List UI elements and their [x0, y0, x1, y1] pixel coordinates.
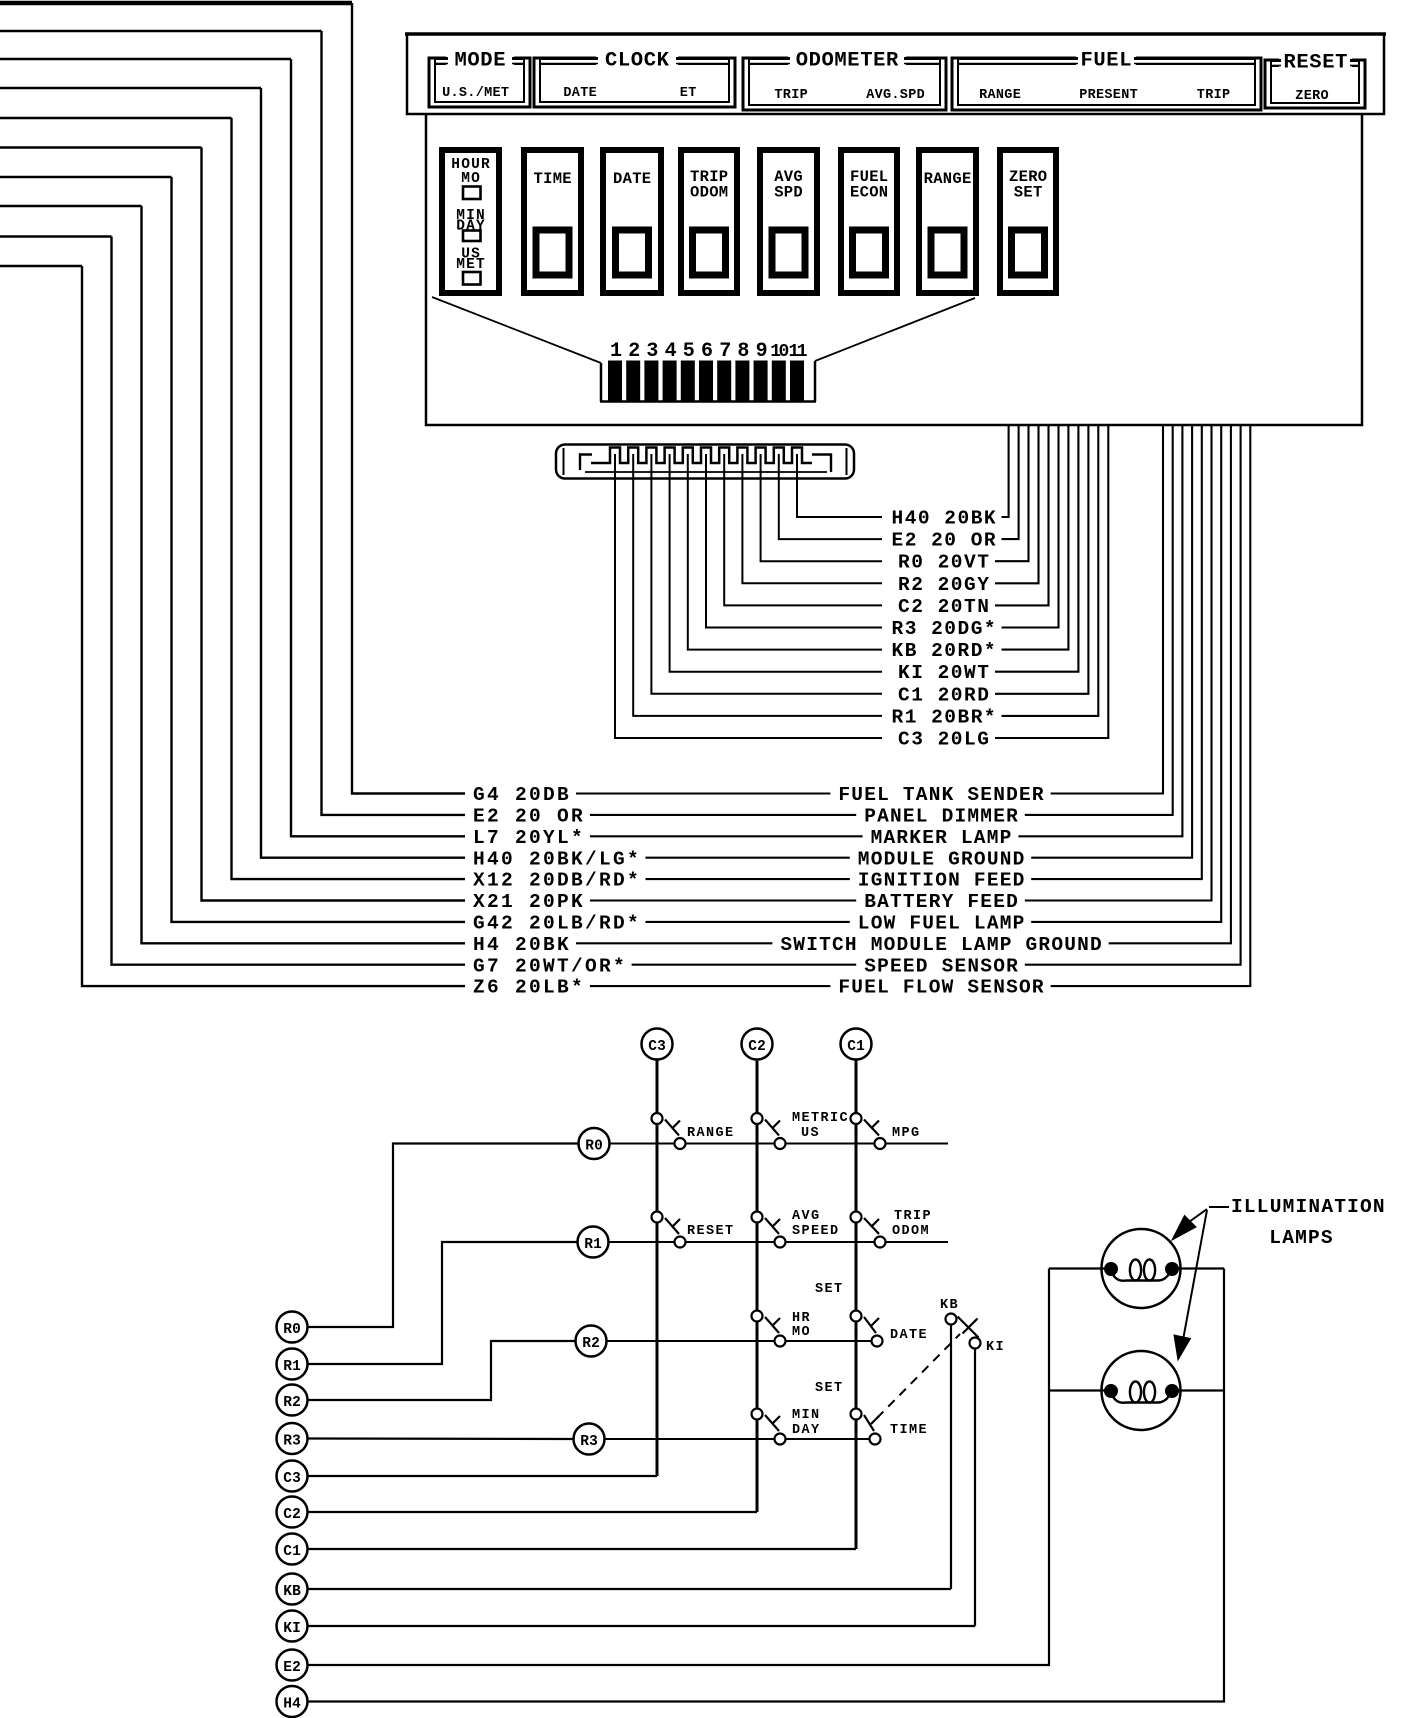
svg-text:H4 20BK: H4 20BK: [473, 934, 571, 956]
svg-text:MIN: MIN: [792, 1408, 821, 1423]
svg-text:MO: MO: [792, 1325, 811, 1340]
panel group box CLOCK: [534, 48, 735, 107]
svg-text:SET: SET: [1014, 184, 1043, 202]
svg-text:ILLUMINATION: ILLUMINATION: [1231, 1196, 1386, 1218]
svg-text:R1: R1: [584, 1237, 602, 1253]
svg-text:E2: E2: [283, 1660, 301, 1676]
terminal C3: [277, 1461, 308, 1492]
svg-text:KI 20WT: KI 20WT: [898, 662, 990, 684]
svg-text:TRIP: TRIP: [1197, 88, 1231, 103]
svg-text:R2 20GY: R2 20GY: [898, 574, 990, 596]
switch RANGE (R0-C3): [652, 1113, 735, 1149]
svg-text:Z6 20LB*: Z6 20LB*: [473, 977, 585, 999]
row H4 20BK — SWITCH MODULE LAMP GROUND: [473, 426, 1231, 956]
arrow to lamp 2: [1174, 1210, 1207, 1360]
svg-text:KI: KI: [986, 1340, 1005, 1355]
rocker switch AVG SPD: [760, 150, 817, 293]
svg-text:G4 20DB: G4 20DB: [473, 784, 571, 806]
gang dashed link TIME-KB: [877, 1334, 960, 1418]
svg-text:ODOMETER: ODOMETER: [796, 50, 899, 73]
svg-text:DAY: DAY: [792, 1423, 821, 1438]
terminal R2: [277, 1385, 308, 1416]
svg-text:RANGE: RANGE: [924, 170, 972, 188]
svg-text:AVG.SPD: AVG.SPD: [866, 88, 925, 103]
svg-text:RESET: RESET: [687, 1224, 735, 1239]
svg-text:MODULE GROUND: MODULE GROUND: [858, 848, 1026, 870]
svg-text:ECON: ECON: [850, 184, 888, 202]
svg-text:KI: KI: [283, 1621, 301, 1637]
svg-text:METRIC: METRIC: [792, 1111, 849, 1126]
svg-text:FUEL FLOW SENSOR: FUEL FLOW SENSOR: [838, 977, 1044, 999]
rocker switch DATE: [603, 150, 661, 293]
label C3 20LG with wire to module: [898, 426, 1108, 751]
module pin 1: [608, 340, 622, 402]
row X12 20DB/RD* — IGNITION FEED: [473, 426, 1202, 892]
node R3 (row): [574, 1424, 605, 1455]
wire pin 3 to C1 20RD: [651, 454, 882, 694]
panel group box MODE: [429, 48, 530, 107]
module pin 4: [663, 340, 677, 402]
switch AVG SPEED (R1-C2): [752, 1209, 840, 1248]
svg-text:3: 3: [646, 340, 658, 363]
svg-text:U.S./MET: U.S./MET: [442, 86, 509, 101]
svg-text:R0: R0: [283, 1322, 301, 1338]
svg-text:ODOM: ODOM: [690, 184, 728, 202]
wire pin 2 to R1 20BR*: [633, 454, 882, 716]
svg-text:ODOM: ODOM: [892, 1224, 930, 1239]
svg-text:9: 9: [756, 340, 768, 363]
svg-text:IGNITION FEED: IGNITION FEED: [858, 870, 1026, 892]
svg-text:H40 20BK/LG*: H40 20BK/LG*: [473, 848, 641, 870]
wire H4 20BK harness (left nest): [0, 206, 465, 943]
svg-text:TRIP: TRIP: [894, 1209, 932, 1224]
wire terminal R1 to row R1: [308, 1242, 578, 1364]
svg-text:R3 20DG*: R3 20DG*: [892, 618, 998, 640]
arrow to lamp 1: [1172, 1209, 1207, 1240]
wire E2 20 OR harness (left nest): [0, 31, 465, 815]
wire column C3: [656, 1060, 659, 1477]
module pin 5: [681, 340, 695, 402]
svg-text:C3: C3: [648, 1039, 666, 1055]
wire row R1: [609, 1241, 949, 1243]
svg-text:TIME: TIME: [534, 170, 572, 188]
label KI 20WT with wire to module: [898, 426, 1078, 684]
fan line right: [815, 298, 975, 361]
svg-text:C1: C1: [283, 1544, 301, 1560]
terminal R3: [277, 1423, 308, 1454]
svg-text:DATE: DATE: [613, 170, 651, 188]
svg-text:KB: KB: [940, 1298, 959, 1313]
svg-text:FUEL: FUEL: [1081, 50, 1133, 73]
row X21 20PK — BATTERY FEED: [473, 426, 1212, 913]
svg-text:5: 5: [683, 340, 695, 363]
label SET (hr/mo set): [815, 1282, 844, 1297]
wire G7 20WT/OR* harness (left nest): [0, 237, 465, 965]
wire terminal KI to switch KI: [308, 1625, 976, 1627]
label R2 20GY with wire to module: [898, 426, 1039, 596]
module pin 9: [754, 340, 768, 402]
svg-text:C2 20TN: C2 20TN: [898, 596, 990, 618]
svg-text:R2: R2: [283, 1395, 301, 1411]
wire column C1: [855, 1060, 858, 1550]
switch TIME (R3-C1): [851, 1409, 929, 1445]
row G4 20DB — FUEL TANK SENDER: [473, 426, 1163, 806]
svg-text:10: 10: [770, 342, 788, 362]
svg-text:SPEED: SPEED: [792, 1224, 840, 1239]
svg-text:ZERO: ZERO: [1295, 89, 1329, 104]
switch KB/KI: [940, 1298, 1005, 1355]
label H40 20BK with wire to module: [892, 426, 1009, 530]
wire X21 20PK harness (left nest): [0, 148, 465, 901]
label R3 20DG* with wire to module: [892, 426, 1059, 640]
svg-text:1: 1: [610, 340, 622, 363]
svg-text:E2 20 OR: E2 20 OR: [473, 806, 585, 828]
row L7 20YL* — MARKER LAMP: [473, 426, 1182, 849]
row E2 20 OR — PANEL DIMMER: [473, 426, 1173, 828]
svg-text:FUEL TANK SENDER: FUEL TANK SENDER: [838, 784, 1044, 806]
svg-text:6: 6: [701, 340, 713, 363]
panel group box RESET: [1265, 50, 1365, 108]
svg-text:C1: C1: [847, 1039, 865, 1055]
svg-text:R1 20BR*: R1 20BR*: [892, 706, 998, 728]
svg-text:SET: SET: [815, 1381, 844, 1396]
wire X12 20DB/RD* harness (left nest): [0, 118, 465, 879]
switch TRIP ODOM (R1-C1): [851, 1209, 933, 1248]
rocker switch FUEL ECON: [841, 150, 897, 293]
rocker switch RANGE: [919, 150, 976, 293]
svg-text:MARKER LAMP: MARKER LAMP: [871, 827, 1013, 849]
panel group box ODOMETER: [743, 48, 946, 110]
wire pin 4 to KI 20WT: [670, 454, 882, 672]
wire row R3: [605, 1438, 870, 1440]
terminal H4: [277, 1686, 308, 1717]
svg-text:H40 20BK: H40 20BK: [892, 508, 998, 530]
module pin 11: [789, 342, 808, 402]
svg-text:11: 11: [789, 342, 808, 362]
svg-text:LAMPS: LAMPS: [1269, 1227, 1334, 1249]
svg-text:RESET: RESET: [1284, 52, 1349, 75]
terminal KI: [277, 1611, 308, 1642]
row G42 20LB/RD* — LOW FUEL LAMP: [473, 426, 1221, 935]
wire L7 20YL* harness (left nest): [0, 59, 465, 836]
wire row R0: [610, 1143, 949, 1145]
svg-text:X21 20PK: X21 20PK: [473, 891, 585, 913]
lamp circuit left rail: [0, 0, 1, 1]
rocker switch TIME: [524, 150, 581, 293]
wire pin 10 to E2 20 OR: [779, 454, 882, 539]
row G7 20WT/OR* — SPEED SENSOR: [473, 426, 1241, 977]
svg-text:G42 20LB/RD*: G42 20LB/RD*: [473, 913, 641, 935]
svg-text:ET: ET: [680, 86, 697, 101]
wire terminal C3 to column C3: [308, 1475, 658, 1477]
rocker switch TRIP ODOM: [681, 150, 737, 293]
svg-text:R3: R3: [580, 1434, 598, 1450]
wire G42 20LB/RD* harness (left nest): [0, 177, 465, 922]
panel group box FUEL: [952, 48, 1261, 110]
svg-text:US: US: [801, 1126, 820, 1141]
svg-text:AVG: AVG: [792, 1209, 821, 1224]
terminal R0: [277, 1312, 308, 1343]
node C2 (column top): [742, 1029, 773, 1060]
module body outline: [426, 114, 1362, 425]
switch RESET (R1-C3): [652, 1212, 735, 1248]
illumination lamp 2: [1049, 1351, 1224, 1430]
fan line left: [432, 297, 601, 363]
svg-text:7: 7: [719, 340, 731, 363]
svg-text:R0 20VT: R0 20VT: [898, 552, 990, 574]
svg-text:4: 4: [665, 340, 677, 363]
wire terminal H4 to lamp rail: [308, 1269, 1225, 1702]
svg-text:DATE: DATE: [890, 1328, 928, 1343]
wire H40 20BK/LG* harness (left nest): [0, 88, 465, 858]
wire terminal R3 to row R3: [308, 1437, 574, 1440]
switch MPG (R0-C1): [851, 1113, 921, 1149]
terminal KB: [277, 1574, 308, 1605]
svg-text:RANGE: RANGE: [687, 1126, 735, 1141]
svg-text:C2: C2: [283, 1507, 301, 1523]
label C2 20TN with wire to module: [898, 426, 1049, 618]
label E2 20 OR with wire to module: [892, 426, 1019, 552]
module pin 6: [699, 340, 713, 402]
module pin 10: [770, 342, 788, 402]
svg-text:R3: R3: [283, 1434, 301, 1450]
svg-text:PRESENT: PRESENT: [1079, 88, 1138, 103]
svg-text:H4: H4: [283, 1697, 301, 1713]
wire terminal C2 to column C2: [308, 1511, 758, 1513]
svg-text:KB 20RD*: KB 20RD*: [892, 640, 998, 662]
label C1 20RD with wire to module: [898, 426, 1088, 706]
terminal C2: [277, 1497, 308, 1528]
terminal E2: [277, 1650, 308, 1681]
svg-text:KB: KB: [283, 1584, 301, 1600]
module pin tray: [600, 361, 816, 402]
node C1 (column top): [841, 1029, 872, 1060]
11-way connector housing: [556, 445, 854, 479]
label KB 20RD* with wire to module: [892, 426, 1069, 662]
wire pin 9 to R0 20VT: [761, 454, 882, 561]
label R1 20BR* with wire to module: [892, 426, 1099, 728]
wire pin 11 to H40 20BK: [797, 454, 882, 517]
svg-text:MODE: MODE: [455, 50, 507, 73]
terminal C1: [277, 1534, 308, 1565]
label R0 20VT with wire to module: [898, 426, 1029, 574]
svg-text:SET: SET: [815, 1282, 844, 1297]
switch SET HR/MO (R2-C2): [752, 1311, 812, 1347]
svg-text:L7 20YL*: L7 20YL*: [473, 827, 585, 849]
node R2 (row): [576, 1326, 607, 1357]
svg-text:C3 20LG: C3 20LG: [898, 729, 990, 751]
wire row R2: [607, 1340, 872, 1342]
svg-text:BATTERY FEED: BATTERY FEED: [864, 891, 1019, 913]
wire terminal E2 to lamp rail: [308, 1269, 1050, 1666]
module switch panel outer band: [405, 34, 1386, 114]
svg-text:G7 20WT/OR*: G7 20WT/OR*: [473, 955, 627, 977]
wire column KB: [950, 1325, 952, 1590]
terminal R1: [277, 1349, 308, 1380]
module pin 7: [717, 340, 731, 402]
svg-text:R0: R0: [585, 1139, 603, 1155]
module pin 2: [626, 340, 640, 402]
svg-text:SWITCH MODULE LAMP GROUND: SWITCH MODULE LAMP GROUND: [780, 934, 1103, 956]
wire G4 20DB harness (left nest): [0, 3, 465, 794]
svg-text:DATE: DATE: [563, 86, 597, 101]
switch DATE (R2-C1): [851, 1311, 929, 1347]
switch METRIC/US (R0-C2): [752, 1111, 850, 1149]
label SET (min/day set): [815, 1381, 844, 1396]
svg-text:LOW FUEL LAMP: LOW FUEL LAMP: [858, 913, 1026, 935]
wire pin 6 to R3 20DG*: [706, 454, 882, 628]
wire column KI: [974, 1349, 976, 1627]
svg-text:MPG: MPG: [892, 1126, 921, 1141]
svg-text:2: 2: [628, 340, 640, 363]
wire pin 5 to KB 20RD*: [688, 454, 882, 650]
rocker switch ZERO SET: [1000, 150, 1056, 293]
module pin 8: [735, 340, 749, 402]
node R1 (row): [578, 1227, 609, 1258]
svg-text:E2 20 OR: E2 20 OR: [892, 530, 998, 552]
row Z6 20LB* — FUEL FLOW SENSOR: [473, 426, 1250, 999]
svg-text:SPEED SENSOR: SPEED SENSOR: [864, 955, 1019, 977]
switch SET MIN/DAY (R3-C2): [752, 1408, 821, 1445]
svg-text:X12 20DB/RD*: X12 20DB/RD*: [473, 870, 641, 892]
wire pin 8 to R2 20GY: [742, 454, 882, 583]
node R0 (row): [579, 1128, 610, 1159]
wire column C2: [756, 1060, 759, 1513]
svg-text:RANGE: RANGE: [979, 88, 1021, 103]
wire terminal R2 to row R2: [308, 1341, 576, 1400]
label ILLUMINATION LAMPS: [1209, 1196, 1386, 1249]
svg-text:8: 8: [737, 340, 749, 363]
svg-text:HR: HR: [792, 1311, 811, 1326]
rocker switch MODE selector (HOUR MO MIN DAY US MET): [442, 150, 499, 293]
svg-text:R2: R2: [582, 1336, 600, 1352]
svg-text:C3: C3: [283, 1471, 301, 1487]
svg-text:SPD: SPD: [774, 184, 803, 202]
illumination lamp 1: [1049, 1229, 1224, 1308]
svg-text:TIME: TIME: [890, 1423, 928, 1438]
wire Z6 20LB* harness (left nest): [0, 266, 465, 986]
wire terminal C1 to column C1: [308, 1548, 857, 1550]
svg-text:C2: C2: [748, 1039, 766, 1055]
svg-text:R1: R1: [283, 1359, 301, 1375]
svg-text:C1 20RD: C1 20RD: [898, 684, 990, 706]
svg-text:CLOCK: CLOCK: [605, 50, 670, 73]
module pin 3: [644, 340, 658, 402]
svg-text:PANEL DIMMER: PANEL DIMMER: [864, 806, 1019, 828]
node C3 (column top): [642, 1029, 673, 1060]
row H40 20BK/LG* — MODULE GROUND: [473, 426, 1192, 870]
wire terminal KB to switch KB: [308, 1588, 952, 1590]
svg-text:TRIP: TRIP: [774, 88, 808, 103]
wire pin 7 to C2 20TN: [724, 454, 882, 605]
svg-text:MO: MO: [461, 171, 481, 187]
wire terminal R0 to row R0: [308, 1144, 579, 1328]
svg-text:MET: MET: [456, 257, 486, 273]
wire pin 1 to C3 20LG: [615, 454, 882, 738]
